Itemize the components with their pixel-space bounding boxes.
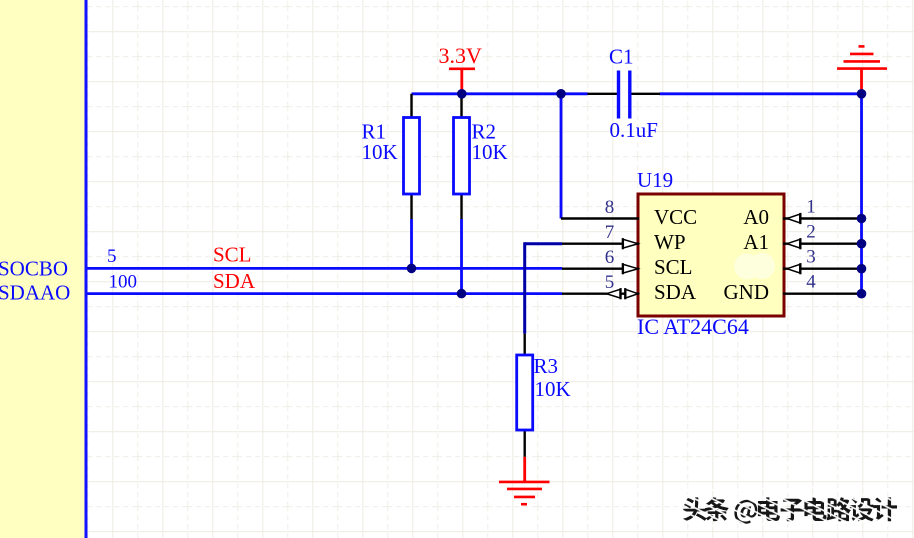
junction R1-SCL [407, 264, 417, 274]
svg-text:8: 8 [605, 197, 615, 218]
pin 3 [783, 263, 862, 274]
pin label GND [724, 280, 770, 304]
svg-text:6: 6 [605, 247, 615, 268]
pin number 5 [605, 272, 615, 293]
svg-text:100: 100 [109, 272, 138, 293]
svg-text:0.1uF: 0.1uF [610, 118, 658, 142]
value R2 10K [472, 140, 508, 164]
svg-text:5: 5 [107, 246, 117, 267]
svg-text:WP: WP [654, 230, 686, 254]
svg-text:SDA: SDA [213, 269, 256, 293]
capacitor C1 [588, 71, 661, 119]
pin number 8 [605, 197, 615, 218]
IC U19 AT24C64 [638, 194, 784, 316]
net label 5 [107, 246, 117, 267]
svg-text:R3: R3 [534, 354, 559, 378]
net label SDA [213, 269, 256, 293]
svg-text:5: 5 [605, 272, 615, 293]
wire SCL net [88, 267, 563, 270]
svg-text:7: 7 [605, 222, 615, 243]
junction R2-SDA [457, 289, 467, 299]
pin number 3 [806, 247, 816, 268]
svg-text:U19: U19 [637, 168, 673, 192]
label U19 [637, 168, 673, 192]
value C1 0.1uF [610, 118, 658, 142]
junction C1 branch [556, 89, 566, 99]
junction 3.3V rail [457, 89, 467, 99]
net label 100 [109, 272, 138, 293]
wire right bus A0-A3/GND [860, 94, 863, 294]
resistor R3 [517, 334, 533, 457]
svg-text:SCL: SCL [654, 255, 693, 279]
svg-text:SDA: SDA [654, 280, 697, 304]
svg-text:C1: C1 [609, 45, 634, 69]
svg-text:10K: 10K [362, 140, 398, 164]
junction ground rail [857, 89, 867, 99]
resistor R2 [454, 94, 470, 219]
svg-text:GND: GND [724, 280, 770, 304]
pin label SCL [654, 255, 693, 279]
value R1 10K [362, 140, 398, 164]
left sheet panel [0, 0, 85, 538]
wire WP to R3 vertical [523, 242, 526, 333]
svg-text:VCC: VCC [654, 205, 697, 229]
sheet border line [85, 0, 88, 538]
wire R1 to SCL [410, 219, 413, 268]
junction pin2 bus [857, 239, 867, 249]
pin number 7 [605, 222, 615, 243]
ground bottom under R3 [499, 457, 550, 505]
wire WP horizontal segment [525, 242, 562, 245]
pin 7 WP [562, 238, 639, 249]
svg-text:IC AT24C64: IC AT24C64 [637, 314, 749, 339]
power symbol 3.3V [439, 43, 483, 94]
label IC AT24C64 [637, 314, 749, 339]
pin 6 SCL [562, 263, 639, 274]
pin label A1 [743, 230, 769, 254]
svg-text:A1: A1 [743, 230, 769, 254]
value R3 10K [535, 377, 571, 401]
net label SCL [213, 243, 252, 267]
svg-text:10K: 10K [535, 377, 571, 401]
pin number 4 [806, 272, 816, 293]
svg-text:A0: A0 [743, 205, 769, 229]
wire VCC drop to pin 8 [560, 94, 563, 219]
svg-text:3: 3 [806, 247, 816, 268]
svg-text:10K: 10K [472, 140, 508, 164]
pin label WP [654, 230, 686, 254]
svg-text:4: 4 [806, 272, 816, 293]
port SOCBO [0, 257, 68, 281]
pin 2 A1 [783, 238, 862, 249]
pin 8 VCC [561, 217, 639, 219]
junction pin4 bus [857, 289, 867, 299]
svg-text:1: 1 [806, 197, 816, 218]
pin label A0 [743, 205, 769, 229]
pin 1 A0 [783, 213, 862, 224]
ground top right [837, 46, 887, 93]
junction pin3 bus [857, 264, 867, 274]
pin label VCC [654, 205, 697, 229]
wire VCC rail left segment [412, 92, 588, 95]
svg-text:SDAAO: SDAAO [0, 281, 70, 305]
label R1 [362, 120, 387, 144]
svg-text:2: 2 [806, 222, 816, 243]
port SDAAO [0, 281, 70, 305]
watermark 头条 @电子电路设计 [676, 486, 906, 530]
junction pin1 bus [857, 214, 867, 224]
svg-text:3.3V: 3.3V [439, 43, 483, 68]
pin number 1 [806, 197, 816, 218]
pin 5 SDA [562, 288, 639, 299]
wire VCC rail right segment [660, 92, 862, 95]
wire R2 to SDA [460, 219, 463, 294]
pin number 6 [605, 247, 615, 268]
wire SDA net [88, 292, 563, 295]
pin 4 GND [783, 293, 862, 295]
svg-text:SOCBO: SOCBO [0, 257, 68, 281]
label R2 [472, 120, 497, 144]
pin label SDA [654, 280, 697, 304]
resistor R1 [404, 94, 420, 219]
svg-text:SCL: SCL [213, 243, 252, 267]
pin number 2 [806, 222, 816, 243]
label C1 [609, 45, 634, 69]
label R3 [534, 354, 559, 378]
